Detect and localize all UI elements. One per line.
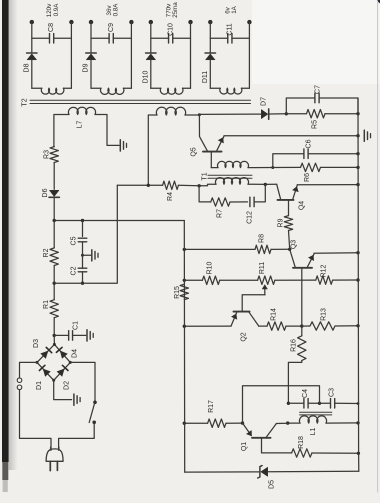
svg-text:C10: C10 <box>167 23 174 36</box>
label Q5 <box>191 147 198 156</box>
diode D2 <box>57 365 68 376</box>
R11 wiper arrow <box>262 284 268 294</box>
wire Q5 emitter to ground bus <box>224 135 358 137</box>
svg-text:R17: R17 <box>208 400 215 413</box>
svg-text:R11: R11 <box>259 262 266 274</box>
wire switch to plug <box>59 422 95 450</box>
node output terminal + of winding 3 <box>149 20 153 24</box>
svg-text:R4: R4 <box>167 192 174 201</box>
node R5 bus <box>356 112 359 115</box>
label L1 <box>310 428 317 436</box>
svg-text:D2: D2 <box>64 381 71 390</box>
zener diode D5 <box>258 466 268 478</box>
label C9 <box>108 23 115 32</box>
wire diode to winding cell 3 <box>150 60 152 88</box>
label Q4 <box>299 201 306 210</box>
svg-text:R2: R2 <box>43 248 50 257</box>
node output terminal + of winding 4 <box>208 20 212 24</box>
diode D9 <box>86 53 96 60</box>
svg-text:C12: C12 <box>247 211 254 224</box>
node R14/R13/R16 junction <box>300 324 303 327</box>
svg-text:R15: R15 <box>174 286 181 299</box>
ground right of bus <box>364 130 370 141</box>
inductor L7 primary winding left <box>54 107 119 146</box>
svg-text:R9: R9 <box>278 218 285 227</box>
diode D7 <box>261 109 268 119</box>
node L1 bus <box>356 421 359 424</box>
node bridge left <box>36 361 39 364</box>
wire left rail <box>183 221 185 473</box>
label R2 <box>43 248 50 257</box>
label C6 <box>306 139 313 148</box>
svg-text:0.9A: 0.9A <box>53 3 60 17</box>
node output terminal - of winding 4 <box>247 20 251 24</box>
label 0.9A output rating <box>53 3 60 17</box>
wire bridge left to fuse <box>20 362 38 377</box>
capacitor C10 <box>151 34 191 44</box>
svg-text:R14: R14 <box>271 308 278 321</box>
ground at L7 right end <box>120 140 126 151</box>
node emitter bus <box>356 134 359 137</box>
label R15 <box>174 286 181 299</box>
node output terminal + of winding 2 <box>89 20 93 24</box>
node C3 bus <box>357 402 360 405</box>
top right corner mark <box>377 0 380 3</box>
svg-text:D9: D9 <box>83 63 90 72</box>
diode D4 <box>56 347 67 358</box>
svg-text:R16: R16 <box>291 339 298 352</box>
resistor R6 <box>273 163 358 171</box>
svg-text:25ma: 25ma <box>172 2 179 18</box>
capacitor C7 <box>286 93 358 114</box>
svg-text:Q2: Q2 <box>241 332 248 341</box>
wire right leg cell 1 <box>70 22 72 88</box>
inductor L1 <box>288 416 358 423</box>
label C4 <box>302 389 309 398</box>
capacitor C11 <box>210 34 249 44</box>
wire D7 to node <box>270 113 287 115</box>
label R1 <box>43 300 50 309</box>
svg-text:L1: L1 <box>310 428 317 436</box>
node Q3 emitter bus <box>356 251 359 254</box>
wire right leg cell 3 <box>190 22 192 88</box>
node R18 bus <box>357 452 360 455</box>
wire D5 to rail <box>185 471 260 473</box>
svg-text:D4: D4 <box>72 349 79 358</box>
wire R2 node to R4 riser <box>54 185 117 283</box>
label R18 <box>298 436 305 449</box>
transistor Q4 <box>277 184 299 215</box>
label D1 <box>36 381 43 390</box>
node R6 bus <box>356 166 359 169</box>
label D10 <box>142 70 149 83</box>
node C4/C3 midpoint <box>318 402 321 405</box>
transformer T2 core <box>30 100 251 103</box>
label L7 <box>76 121 83 129</box>
capacitor C4 <box>288 399 319 409</box>
svg-text:R6: R6 <box>304 173 311 182</box>
svg-text:R7: R7 <box>217 209 224 218</box>
label D8 <box>23 63 30 72</box>
wire right leg cell 2 <box>130 22 132 88</box>
svg-text:R8: R8 <box>259 234 266 243</box>
transistor Q2 <box>231 295 265 326</box>
ground at bridge bottom <box>54 380 80 405</box>
transformer T1 primary winding <box>199 178 277 186</box>
svg-text:C1: C1 <box>73 321 80 330</box>
svg-text:D5: D5 <box>269 480 276 489</box>
label C11 <box>226 23 233 35</box>
plug P1 <box>46 447 63 470</box>
label R9 <box>278 218 285 227</box>
label C2 <box>71 266 78 275</box>
T2 secondary winding 2 <box>91 88 131 94</box>
wire bridge right to switch <box>70 362 95 402</box>
diode D6 <box>49 190 59 197</box>
resistor R18 <box>292 449 359 457</box>
fuse F1 <box>17 378 22 390</box>
T2 secondary winding 1 <box>32 88 72 94</box>
svg-text:T2: T2 <box>22 98 29 106</box>
transformer T1 feedback winding <box>211 161 272 167</box>
node T1 top right <box>271 166 274 169</box>
svg-text:C2: C2 <box>71 266 78 275</box>
wire diode to winding cell 1 <box>31 60 33 88</box>
label R13 <box>321 308 328 321</box>
svg-text:R12: R12 <box>321 264 328 277</box>
node R14 rail <box>183 325 186 328</box>
switch S1 <box>89 401 97 425</box>
label R4 <box>167 192 174 201</box>
transformer T1 core <box>208 175 252 178</box>
svg-text:D8: D8 <box>23 63 30 72</box>
capacitor C3 <box>320 399 359 409</box>
resistor R7 <box>199 186 247 206</box>
capacitor C5 <box>78 221 87 256</box>
bridge edges <box>37 344 70 380</box>
node C2 bottom <box>81 282 84 285</box>
label R5 <box>312 120 319 129</box>
node bridge right <box>69 361 72 364</box>
label 36v output rating <box>106 5 113 16</box>
node bridge top <box>53 343 56 346</box>
resistor R5 <box>286 110 358 118</box>
label Q1 <box>241 442 248 451</box>
wire fuse to plug <box>20 390 52 451</box>
T2 secondary winding 3 <box>151 88 191 94</box>
ground at C1 <box>87 330 93 341</box>
wire left leg cell 2 <box>90 22 92 52</box>
capacitor C12 <box>250 184 265 206</box>
resistor R14 <box>259 322 302 330</box>
label R14 <box>271 308 278 321</box>
svg-text:R5: R5 <box>312 120 319 129</box>
resistor R12 <box>316 276 358 284</box>
label R16 <box>291 339 298 352</box>
label D7 <box>261 97 268 106</box>
svg-text:C6: C6 <box>306 139 313 148</box>
T2 primary winding right <box>148 107 199 185</box>
label T1 <box>202 172 209 180</box>
capacitor C9 <box>91 34 131 44</box>
capacitor C6 <box>273 149 358 168</box>
transistor Q5 <box>199 115 224 168</box>
node R12 bus <box>356 278 359 281</box>
label C10 <box>167 23 174 36</box>
svg-text:D11: D11 <box>202 71 209 83</box>
svg-text:Q3: Q3 <box>291 240 298 249</box>
capacitor C2 <box>78 255 87 283</box>
node R13 bus <box>356 324 359 327</box>
label R6 <box>304 173 311 182</box>
label D4 <box>72 349 79 358</box>
resistor R15 <box>180 284 188 299</box>
svg-text:C4: C4 <box>302 389 309 398</box>
wire rail to Q2 emitter <box>184 325 231 327</box>
node R8 rail <box>183 248 186 251</box>
label R17 <box>208 400 215 413</box>
svg-text:L7: L7 <box>76 121 83 129</box>
svg-text:D7: D7 <box>261 97 268 106</box>
diode D1 <box>39 365 50 376</box>
svg-text:Q1: Q1 <box>241 442 248 451</box>
svg-text:C11: C11 <box>226 23 233 35</box>
node output terminal - of winding 2 <box>129 20 133 24</box>
svg-text:C9: C9 <box>108 23 115 32</box>
node L1 left / Q1 collector <box>286 421 289 424</box>
label 1A output rating <box>231 5 238 13</box>
svg-text:D6: D6 <box>42 188 49 197</box>
label 770v output rating <box>165 3 172 17</box>
wire top line to rail <box>54 220 184 222</box>
label C7 <box>315 85 322 94</box>
node R17/Q1 junction <box>241 421 244 424</box>
resistor R9 <box>284 216 292 250</box>
label D9 <box>83 63 90 72</box>
node C4 left <box>287 402 290 405</box>
node output terminal + of winding 1 <box>30 20 34 24</box>
node C1 <box>53 334 56 337</box>
potentiometer R11 <box>258 276 316 284</box>
label R10 <box>207 261 214 274</box>
transformer L1 core <box>300 412 332 415</box>
node R8/R9/Q3 junction <box>288 248 291 251</box>
wire bottom return <box>269 470 359 472</box>
label R12 <box>321 264 328 277</box>
node T1 bottom left / R4 <box>197 184 200 187</box>
label 25ma output rating <box>172 2 179 18</box>
node C7/R5 left <box>285 112 288 115</box>
svg-text:Q4: Q4 <box>299 201 306 210</box>
diode D10 <box>146 53 156 60</box>
label C12 <box>247 211 254 224</box>
wire left leg cell 1 <box>31 22 33 52</box>
svg-text:T1: T1 <box>202 172 209 180</box>
label C5 <box>71 236 78 245</box>
svg-text:R3: R3 <box>44 150 51 159</box>
node Q4 emitter bus <box>356 183 359 186</box>
T2 secondary winding 4 <box>210 88 249 94</box>
label 0.8A output rating <box>112 3 119 17</box>
node C6 bus <box>356 152 359 155</box>
node R17 rail <box>183 422 186 425</box>
label D5 <box>269 480 276 489</box>
label D3 <box>33 339 40 348</box>
svg-text:C5: C5 <box>71 236 78 245</box>
label Q2 <box>241 332 248 341</box>
capacitor C8 <box>32 34 72 44</box>
wire right leg cell 4 <box>248 22 250 88</box>
node R10 rail <box>183 279 186 282</box>
svg-text:R18: R18 <box>298 436 305 449</box>
wire winding to D7 <box>199 113 261 115</box>
svg-text:D3: D3 <box>33 339 40 348</box>
label 6v output rating <box>224 6 231 13</box>
resistor R17 <box>184 419 242 427</box>
label D6 <box>42 188 49 197</box>
resistor R13 <box>302 322 358 330</box>
capacitor C1 <box>54 331 86 341</box>
wire Q4 emitter to bus <box>297 184 358 186</box>
label R7 <box>217 209 224 218</box>
node C5/C2 midpoint <box>81 254 84 257</box>
node output terminal - of winding 3 <box>188 20 192 24</box>
node output terminal - of winding 1 <box>69 20 73 24</box>
resistor R2 <box>50 221 58 284</box>
wire left leg cell 3 <box>150 22 152 52</box>
resistor R10 <box>184 276 257 284</box>
label Q3 <box>291 240 298 249</box>
wire D6 to node <box>53 197 55 220</box>
label 120v output rating <box>46 3 53 17</box>
label D11 <box>202 71 209 83</box>
label T2 <box>22 98 29 106</box>
resistor R1 <box>50 283 58 335</box>
svg-text:D10: D10 <box>142 70 149 83</box>
label R11 <box>259 262 266 274</box>
transistor Q1 <box>243 423 292 453</box>
ground between C5 and C2 <box>83 250 99 261</box>
node R2/R1 <box>53 282 56 285</box>
node T1 bottom right / C12 <box>264 183 267 186</box>
svg-text:D1: D1 <box>36 381 43 390</box>
label R3 <box>44 150 51 159</box>
svg-text:C8: C8 <box>48 23 55 32</box>
svg-text:R10: R10 <box>207 261 214 274</box>
resistor R8 <box>184 245 289 253</box>
svg-text:C3: C3 <box>329 388 336 397</box>
node bridge bottom <box>52 379 55 382</box>
label C8 <box>48 23 55 32</box>
node D6/R2 <box>53 219 56 222</box>
svg-text:C7: C7 <box>315 85 322 94</box>
right page edge line <box>377 2 379 492</box>
node C5 top <box>81 219 84 222</box>
transistor Q3 <box>290 249 314 326</box>
diode D8 <box>27 53 37 60</box>
label C3 <box>329 388 336 397</box>
svg-text:1A: 1A <box>231 5 238 13</box>
label D2 <box>64 381 71 390</box>
label C1 <box>73 321 80 330</box>
node winding B / Q5 collector / D7 <box>198 113 201 116</box>
svg-text:R1: R1 <box>43 300 50 309</box>
node R4 / winding B <box>147 184 150 187</box>
svg-text:0.8A: 0.8A <box>112 3 119 17</box>
resistor R3 <box>50 147 58 190</box>
wire diode to winding cell 4 <box>209 60 211 88</box>
wire Q3 emitter to bus <box>314 252 358 255</box>
wire C4C3 riser to R17 node <box>243 386 320 423</box>
resistor R4 <box>117 181 199 189</box>
wire diode to winding cell 2 <box>90 60 92 88</box>
label R8 <box>259 234 266 243</box>
wire output bus <box>357 98 360 471</box>
resistor R16 <box>288 326 306 403</box>
diode D3 <box>40 347 51 358</box>
diode D11 <box>205 53 215 60</box>
scan gutter black bar <box>2 0 9 462</box>
svg-text:R13: R13 <box>321 308 328 321</box>
wire R1 to bridge top <box>53 335 55 344</box>
svg-text:Q5: Q5 <box>191 147 198 156</box>
wire left leg cell 4 <box>209 22 211 52</box>
